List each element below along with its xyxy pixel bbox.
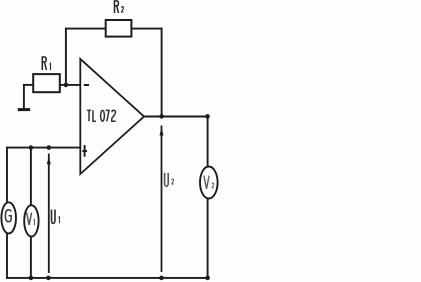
arrow U1 arrowhead — [47, 156, 51, 164]
arrow U1 vertical line — [48, 154, 50, 274]
junction node bottom rail U2 arrow — [159, 276, 164, 281]
wire W15 V2 branch top — [207, 116, 209, 166]
ground — [19, 108, 28, 111]
wire W14 op-amp output horizontal — [144, 116, 208, 118]
wire W6 R1 left lead stub — [24, 84, 33, 86]
label U1 — [52, 210, 60, 224]
wire W8 non-inverting input horizontal — [7, 147, 80, 149]
wire W7 down to ground — [23, 85, 25, 109]
generator G circle — [1, 202, 16, 233]
wire W9 far-left vertical down to generator G top — [6, 148, 8, 203]
junction node output — [159, 114, 164, 119]
wire W11 bottom rail — [7, 277, 208, 279]
wire W5 R1 right lead to op-amp inverting input — [60, 84, 80, 86]
resistor R1 — [33, 74, 60, 92]
wire W12 V1 branch top — [30, 148, 32, 206]
wire W1 top-left horizontal to R2 left lead — [66, 28, 106, 30]
wire W3 left vertical from R2 loop down to inverting node — [65, 29, 67, 85]
arrow U2 vertical line — [161, 126, 163, 273]
wire W16 V2 branch bottom — [207, 199, 209, 278]
op-amp TL072 triangle — [80, 59, 144, 174]
label R1 — [42, 57, 50, 70]
junction node output right corner — [205, 114, 210, 119]
voltmeter V1 letter — [27, 213, 35, 226]
label U2 — [165, 173, 174, 186]
voltmeter V1 circle — [24, 205, 38, 236]
junction node at inverting input — [64, 83, 69, 88]
op-amp non-inverting input plus sign — [82, 145, 87, 157]
junction node V1 branch on input wire — [29, 145, 34, 150]
arrow U2 arrowhead — [160, 127, 164, 135]
junction node bottom rail U1 arrow — [46, 276, 51, 281]
label R2 — [115, 1, 124, 13]
op-amp inverting input minus sign — [84, 84, 89, 86]
junction node U1 arrow on input wire — [47, 145, 52, 150]
junction node bottom rail V2 — [205, 276, 210, 281]
op-amp part label TL 072 — [87, 110, 116, 121]
wire W13 V1 branch bottom — [30, 237, 32, 278]
wire W10 generator G bottom to bottom rail — [6, 234, 8, 278]
generator letter G — [5, 210, 11, 222]
voltmeter V2 letter — [204, 176, 214, 189]
resistor R2 — [106, 20, 132, 37]
junction node bottom rail V1 — [29, 276, 34, 281]
wire W4 right vertical from R2 down to output node — [161, 29, 163, 117]
wire W2 R2 right lead horizontal — [131, 28, 161, 30]
voltmeter V2 circle — [200, 167, 218, 199]
